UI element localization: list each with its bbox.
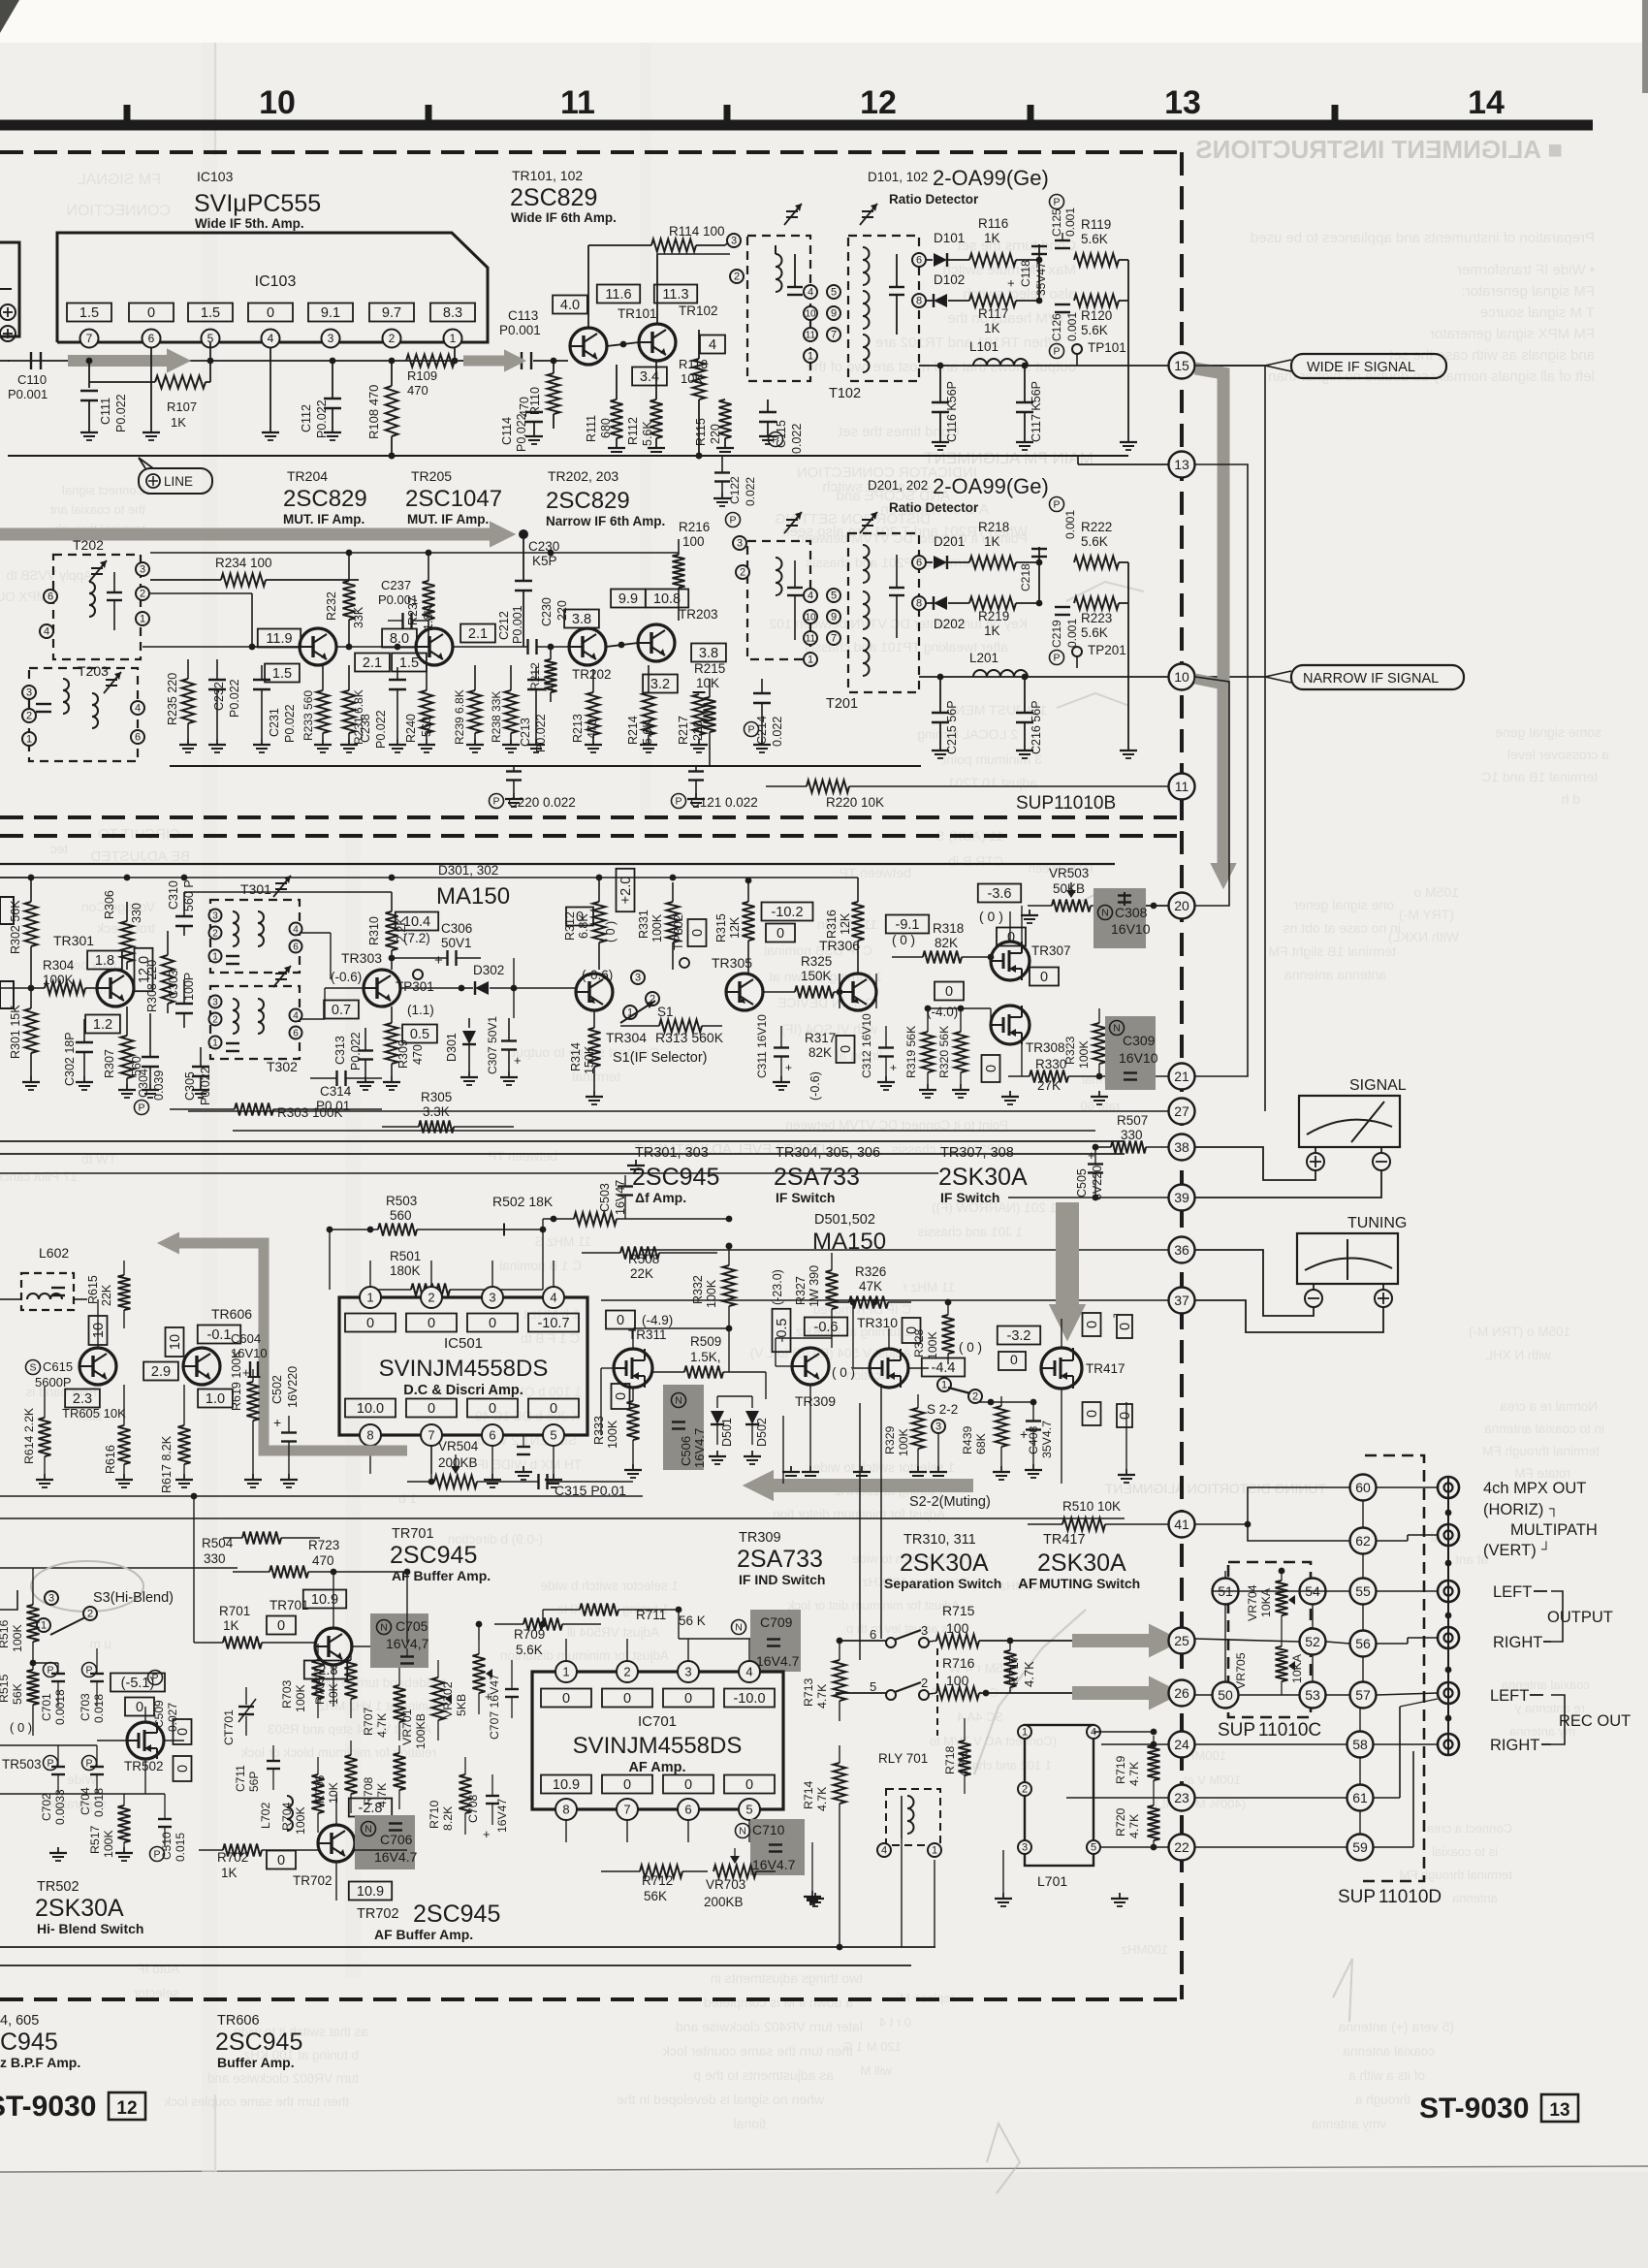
terminal 41	[1169, 1512, 1195, 1538]
svg-text:100K: 100K	[606, 1420, 619, 1449]
svg-text:C238: C238	[359, 714, 372, 743]
FET TR502	[124, 1722, 164, 1773]
terminal 24	[1101, 1732, 1195, 1758]
transistor TR202	[569, 628, 612, 682]
IF board dashed border bottom	[0, 815, 1184, 819]
resistor R509 1.5K	[653, 1334, 766, 1379]
svg-text:5: 5	[550, 1427, 556, 1442]
IC501 voltage bottom 0	[528, 1399, 579, 1418]
svg-text:1K: 1K	[984, 534, 1000, 549]
svg-text:a down if M is completed: a down if M is completed	[704, 1995, 853, 2010]
svg-text:SVINJM4558DS: SVINJM4558DS	[379, 1356, 549, 1382]
svg-text:16V4.7: 16V4.7	[692, 1428, 707, 1468]
svg-text:-4.4: -4.4	[932, 1360, 956, 1376]
label 7.2	[403, 931, 430, 945]
voltage box 0 tr307a	[997, 928, 1026, 946]
IC501 pin 3	[482, 1261, 503, 1308]
svg-text:N: N	[675, 1395, 682, 1407]
svg-text:S2-2(Muting): S2-2(Muting)	[909, 1494, 991, 1510]
svg-text:2.1: 2.1	[363, 655, 382, 671]
capacitor C307 50V1	[460, 1016, 522, 1085]
wire TR202 TR203	[606, 642, 638, 649]
resistor R327 1W390	[794, 1253, 839, 1338]
svg-text:C112: C112	[300, 404, 313, 432]
bus bottom 1	[0, 1946, 935, 1948]
svg-text:8.2K: 8.2K	[441, 1805, 455, 1831]
svg-text:35V47: 35V47	[1034, 262, 1048, 296]
svg-text:Ratio Detector: Ratio Detector	[889, 500, 979, 515]
svg-text:2SC1047: 2SC1047	[405, 486, 502, 512]
resistor R117	[969, 295, 1039, 336]
label TR502 group	[35, 1879, 143, 1936]
svg-text:┘: ┘	[1540, 1541, 1551, 1556]
diode D201	[927, 534, 969, 569]
svg-text:P: P	[47, 1758, 53, 1770]
svg-text:100K: 100K	[705, 1279, 718, 1308]
wire af tr701	[331, 1569, 494, 1707]
label C708b	[495, 1799, 509, 1833]
svg-text:TR606: TR606	[217, 2013, 260, 2028]
ruler number 12	[860, 84, 897, 121]
svg-text:1: 1	[450, 332, 457, 345]
gray arrow input	[68, 348, 191, 372]
svg-text:R305: R305	[421, 1090, 452, 1104]
svg-text:R325: R325	[801, 954, 832, 969]
svg-text:11.6: 11.6	[605, 287, 631, 303]
svg-text:R112: R112	[626, 417, 640, 445]
svg-text:0: 0	[267, 305, 274, 321]
svg-text:R714: R714	[802, 1780, 815, 1809]
IC501 voltage bottom 0	[406, 1399, 457, 1418]
svg-text:R723: R723	[308, 1538, 339, 1552]
svg-text:P0.001: P0.001	[511, 605, 524, 644]
svg-text:Hi- Blend Switch: Hi- Blend Switch	[37, 1921, 143, 1936]
svg-text:R710: R710	[428, 1800, 441, 1829]
switch S2-2	[927, 1378, 982, 1433]
svg-text:T102: T102	[829, 386, 861, 401]
svg-text:TP201: TP201	[1088, 643, 1126, 657]
svg-text:220: 220	[555, 600, 569, 621]
svg-text:330: 330	[204, 1551, 226, 1566]
svg-text:-3.2: -3.2	[1007, 1328, 1031, 1344]
svg-text:0.001: 0.001	[1063, 510, 1077, 539]
capacitor C510 0.015	[150, 1794, 188, 1862]
svg-text:1: 1	[1022, 1727, 1028, 1739]
svg-text:P0.022: P0.022	[515, 413, 528, 452]
label TR604 605 group	[0, 2013, 80, 2070]
svg-text:26: 26	[1174, 1685, 1189, 1701]
transformer T201 dashed box	[848, 533, 919, 692]
resistor R507 330	[1095, 1113, 1168, 1154]
svg-text:220: 220	[691, 720, 705, 741]
wire vr504 up	[428, 1446, 435, 1485]
test point TP301	[396, 970, 434, 994]
IC701 pin 4	[739, 1639, 760, 1682]
svg-text:is to coaxial: is to coaxial	[1432, 1844, 1498, 1859]
svg-text:105M o: 105M o	[1413, 884, 1459, 900]
voltage box -4.4	[922, 1358, 965, 1377]
svg-text:rotate FM: rotate FM	[1514, 1466, 1570, 1481]
narrow trimmer 2	[860, 512, 877, 533]
gray arrow 2	[463, 349, 526, 371]
resistor R716 100	[929, 1655, 1168, 1700]
resistor R614 2.2K	[22, 1387, 53, 1487]
svg-text:100K: 100K	[102, 1829, 115, 1858]
svg-text:P: P	[675, 796, 681, 808]
svg-text:33K: 33K	[352, 606, 365, 628]
terminal 39	[1008, 1185, 1195, 1211]
svg-text:4: 4	[135, 703, 141, 715]
narrow det pins	[733, 536, 840, 666]
label R306 330	[130, 903, 143, 923]
IC501 pin 2	[421, 1261, 442, 1308]
terminal 50	[1213, 1682, 1239, 1709]
svg-text:AF: AF	[1018, 1576, 1037, 1592]
coil box L701	[1025, 1725, 1093, 1889]
label TR307 308 group	[938, 1145, 1028, 1205]
svg-text:1 J01 and chassis: 1 J01 and chassis	[918, 1225, 1023, 1239]
svg-text:2: 2	[972, 1391, 978, 1403]
resistor R332 100K	[691, 1243, 736, 1328]
resistor R502 body	[543, 1213, 640, 1226]
svg-text:100: 100	[682, 534, 705, 549]
svg-text:C705: C705	[396, 1618, 428, 1634]
svg-text:adjust 10 T201: adjust 10 T201	[947, 775, 1037, 790]
svg-text:SVINJM4558DS: SVINJM4558DS	[573, 1733, 743, 1759]
resistor R718 4.7K	[943, 1718, 971, 1794]
svg-text:R330: R330	[1035, 1057, 1066, 1071]
svg-text:R215: R215	[694, 661, 725, 676]
svg-text:1: 1	[562, 1664, 569, 1678]
LINE bubble	[139, 458, 212, 494]
svg-text:P: P	[153, 1849, 160, 1861]
svg-text:C213: C213	[519, 718, 532, 747]
svg-text:C118: C118	[1019, 260, 1032, 287]
svg-text:100M V at: 100M V at	[1183, 1773, 1241, 1787]
resistor R326 47K	[834, 1264, 911, 1309]
IC501 voltage top 0	[467, 1314, 518, 1332]
svg-text:R315: R315	[714, 913, 728, 942]
svg-text:R107: R107	[167, 399, 197, 414]
svg-text:200KB: 200KB	[704, 1895, 744, 1909]
svg-text:1K: 1K	[984, 231, 1000, 245]
svg-text:TR606: TR606	[211, 1306, 252, 1322]
terminal 56	[1350, 1631, 1377, 1657]
svg-text:560: 560	[390, 1208, 412, 1223]
capacitor C305	[183, 1047, 212, 1105]
transistor TR101	[570, 306, 657, 365]
label TR417 group	[1018, 1532, 1140, 1592]
svg-text:52: 52	[1305, 1634, 1320, 1649]
long bus d	[233, 1130, 1095, 1132]
svg-text:R217: R217	[677, 716, 690, 745]
label (0) rot	[604, 921, 618, 942]
capacitor C113	[490, 308, 543, 369]
C122 capacitor	[713, 456, 757, 527]
wire pin4 ground	[262, 348, 279, 440]
IC501 voltage top -10.7	[528, 1314, 579, 1332]
junction	[86, 358, 93, 365]
T201 coils	[863, 545, 904, 676]
svg-text:+: +	[1088, 1148, 1095, 1163]
svg-text:5.6K: 5.6K	[1081, 232, 1108, 246]
svg-text:2SC829: 2SC829	[546, 488, 630, 514]
test point TP201	[1072, 643, 1126, 668]
svg-text:22K: 22K	[630, 1266, 653, 1281]
svg-text:R117: R117	[978, 306, 1008, 321]
svg-text:2: 2	[428, 1290, 434, 1304]
node 3 top	[725, 234, 741, 247]
gray cap C705	[370, 1613, 429, 1668]
svg-text:SUP: SUP	[1218, 1720, 1255, 1741]
FET TR308	[991, 1006, 1065, 1055]
capacitor C238	[359, 667, 406, 752]
svg-text:4: 4	[293, 924, 299, 935]
svg-text:(VERT): (VERT)	[1483, 1542, 1537, 1559]
FET TR417	[1041, 1348, 1125, 1389]
diode D501	[711, 1396, 734, 1447]
svg-text:0.039: 0.039	[152, 1070, 166, 1101]
box pins 10 9	[804, 306, 840, 320]
test point TP101	[1072, 340, 1126, 366]
small boxes 0 upper	[1083, 1307, 1134, 1338]
discriminator dashed box	[747, 236, 810, 381]
svg-text:16V10: 16V10	[1111, 921, 1151, 937]
resistor R515 56K	[0, 1663, 40, 1736]
svg-text:1: 1	[212, 1038, 218, 1048]
svg-text:C306: C306	[441, 921, 472, 936]
svg-text:1.2: 1.2	[93, 1017, 112, 1033]
svg-text:37: 37	[1174, 1293, 1189, 1308]
svg-text:3: 3	[935, 1421, 941, 1433]
resistor R109	[406, 355, 455, 399]
label 1.1	[407, 1003, 434, 1017]
ground TR309	[709, 1338, 1135, 1483]
svg-text:35V4.7: 35V4.7	[1040, 1421, 1054, 1458]
long bus a	[0, 1140, 1125, 1142]
label NARROW IF SIGNAL	[1265, 665, 1464, 689]
svg-text:0: 0	[617, 1313, 624, 1328]
resistor R304 100K	[31, 958, 97, 995]
svg-text:2-OA99(Ge): 2-OA99(Ge)	[933, 474, 1049, 498]
svg-text:53: 53	[1305, 1687, 1320, 1703]
svg-text:D202: D202	[934, 617, 965, 631]
wire narrow collector row	[150, 550, 679, 557]
svg-text:C711: C711	[234, 1765, 247, 1792]
svg-text:the to coaxial ant: the to coaxial ant	[49, 502, 145, 517]
resistor R110	[528, 358, 560, 429]
svg-text:P: P	[85, 1665, 92, 1677]
bus af a	[0, 1495, 643, 1497]
IC501 voltage bottom 10.0	[345, 1399, 396, 1418]
wire 52 56	[1195, 1638, 1438, 1644]
svg-text:1K: 1K	[542, 678, 555, 692]
svg-text:R614 2.2K: R614 2.2K	[22, 1407, 36, 1464]
svg-text:R516: R516	[0, 1619, 11, 1648]
IC701 box	[532, 1672, 783, 1809]
label S1 selector	[613, 1050, 708, 1066]
svg-text:C506: C506	[679, 1436, 693, 1466]
wire TR101 base	[543, 346, 570, 361]
svg-text:relation for minimum block: relation for minimum block or lock	[241, 1745, 436, 1760]
gray path DC loop	[157, 1232, 407, 1452]
IC501 pin 1	[360, 1261, 381, 1308]
label TR701 vbox	[267, 1590, 346, 1635]
svg-text:9.9: 9.9	[618, 591, 638, 607]
cap at pin6	[517, 1435, 530, 1454]
svg-text:Narrow IF 6th Amp.: Narrow IF 6th Amp.	[546, 514, 665, 528]
wires L602 area	[8, 1299, 124, 1366]
svg-text:16V10: 16V10	[1119, 1050, 1158, 1066]
resistor R238 33K	[490, 665, 520, 752]
svg-text:330: 330	[130, 903, 143, 923]
svg-text:Connect signal: Connect signal	[62, 483, 145, 497]
svg-text:R222: R222	[1081, 520, 1112, 534]
svg-text:TUNING DISTORTION ALIGNMENT: TUNING DISTORTION ALIGNMENT	[1104, 1481, 1326, 1496]
voltage box 11.6	[597, 285, 640, 303]
svg-text:16V4.7: 16V4.7	[374, 1849, 418, 1865]
svg-text:R307: R307	[103, 1049, 116, 1078]
svg-text:2SC945: 2SC945	[413, 1901, 500, 1928]
capacitor C115	[759, 399, 804, 454]
transistor TR606	[183, 1348, 220, 1385]
svg-text:50V1: 50V1	[441, 936, 472, 950]
T102 label	[829, 386, 861, 401]
svg-text:2: 2	[212, 1014, 218, 1025]
IC501 voltage top 0	[345, 1314, 396, 1332]
resistor R114	[588, 224, 725, 328]
capacitor C215	[932, 674, 959, 758]
svg-text:+2.0: +2.0	[618, 877, 634, 905]
IC103 box	[57, 233, 488, 342]
resistor R119	[1039, 217, 1128, 267]
svg-text:Separation Switch: Separation Switch	[884, 1576, 1001, 1591]
terminal 58	[1347, 1732, 1374, 1758]
terminal column dashed border	[1180, 152, 1184, 1999]
capacitor C117	[1016, 363, 1043, 442]
svg-text:R509: R509	[690, 1334, 721, 1349]
svg-text:S1: S1	[657, 1005, 674, 1019]
svg-text:R616: R616	[104, 1445, 117, 1474]
svg-text:TR502: TR502	[37, 1879, 79, 1895]
svg-text:1 b: 1 b	[398, 1491, 417, 1506]
svg-text:20: 20	[1174, 898, 1189, 913]
IC701 pin 5	[739, 1799, 760, 1842]
svg-text:L701: L701	[1037, 1873, 1067, 1889]
svg-text:R331: R331	[637, 910, 650, 939]
terminal 13	[1169, 452, 1195, 478]
svg-text:3: 3	[48, 1593, 54, 1605]
svg-text:7: 7	[86, 332, 93, 345]
svg-text:TR417: TR417	[1086, 1361, 1125, 1376]
wire mid bus	[210, 360, 524, 362]
VR702 5KB	[441, 1641, 492, 1718]
voltage box -10.2	[762, 903, 813, 921]
voltage box 2.1b	[460, 624, 495, 643]
ground S2	[853, 1433, 947, 1480]
transistor TR205	[416, 628, 453, 665]
wire det bus	[919, 365, 1168, 367]
svg-text:0: 0	[690, 929, 706, 937]
label WIDE IF SIGNAL	[1265, 354, 1446, 378]
svg-text:2SC945: 2SC945	[632, 1164, 719, 1191]
voltage box 10 b	[166, 1327, 184, 1357]
svg-text:4, 605: 4, 605	[0, 2013, 39, 2028]
svg-text:27: 27	[1174, 1103, 1189, 1119]
wire det2 bus	[919, 676, 1168, 678]
voltage box 0.7	[324, 1001, 359, 1019]
wire TR101-TR102	[607, 341, 639, 348]
narrow trimmer 1	[784, 512, 802, 533]
svg-text:D301, 302: D301, 302	[438, 863, 498, 878]
capacitor C214	[745, 679, 785, 752]
svg-text:2SK30A: 2SK30A	[938, 1164, 1028, 1191]
svg-text:LEFT: LEFT	[1493, 1583, 1532, 1601]
T202 coil	[89, 572, 122, 630]
resistor R319 56K	[904, 1008, 936, 1098]
svg-text:1: 1	[808, 655, 813, 666]
svg-text:0: 0	[366, 1316, 374, 1331]
capacitor C213	[519, 667, 548, 752]
transformer T202 dashed box	[53, 537, 141, 659]
trimmer CT701	[222, 1687, 256, 1745]
resistor R108	[366, 358, 398, 460]
wire tr311 gate	[601, 1368, 653, 1435]
svg-text:0: 0	[684, 1777, 692, 1793]
voltage box 1.2	[85, 1015, 120, 1034]
svg-text:60: 60	[1355, 1480, 1371, 1495]
svg-text:R327: R327	[794, 1276, 808, 1305]
voltage box 1.8	[87, 951, 122, 970]
svg-text:8: 8	[562, 1802, 569, 1816]
svg-text:TR309: TR309	[795, 1393, 836, 1409]
voltage box 9.9	[611, 590, 646, 608]
svg-text:0: 0	[428, 1401, 435, 1417]
svg-text:C219: C219	[1050, 620, 1063, 648]
svg-text:vmy antenna: vmy antenna	[1311, 2117, 1386, 2131]
IC701 pin 3	[678, 1639, 699, 1682]
svg-text:14: 14	[1468, 84, 1505, 121]
terminal 59	[1347, 1835, 1374, 1861]
terminal 52	[1300, 1629, 1326, 1655]
diode D502	[745, 1396, 769, 1447]
svg-text:VR504: VR504	[438, 1439, 479, 1453]
gray arrow narrow input	[0, 521, 516, 547]
svg-text:Buffer Amp.: Buffer Amp.	[217, 2055, 295, 2070]
wire input bus	[8, 360, 210, 362]
ground C115	[759, 431, 776, 444]
svg-text:3: 3	[737, 538, 743, 550]
svg-text:11.3: 11.3	[662, 287, 688, 303]
svg-text:C708: C708	[466, 1794, 480, 1823]
IC103 left cut box	[0, 242, 19, 336]
svg-text:C707 16V47: C707 16V47	[488, 1674, 501, 1740]
svg-text:C218: C218	[1019, 563, 1032, 591]
svg-text:4: 4	[808, 287, 813, 299]
svg-text:5: 5	[870, 1679, 876, 1694]
terminal 61	[1347, 1785, 1374, 1811]
svg-text:antenna antenna: antenna antenna	[1284, 967, 1386, 982]
svg-text:R507: R507	[1117, 1113, 1148, 1128]
IC103 voltage 8.3	[430, 303, 475, 322]
gray arrow to 25	[1072, 1624, 1183, 1658]
svg-text:11: 11	[560, 84, 595, 121]
T203 coil	[36, 679, 98, 728]
ruler bar	[0, 120, 1593, 131]
svg-text:When TR101 and TR102 are: When TR101 and TR102 are	[875, 335, 1062, 351]
coil L101	[969, 339, 1028, 366]
resistor R504 330	[202, 1532, 320, 1569]
